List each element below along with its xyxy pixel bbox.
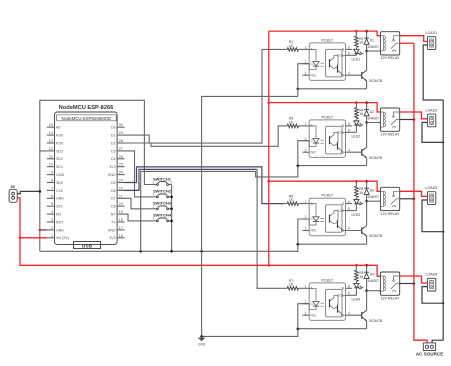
svg-text:PC817: PC817 — [321, 115, 333, 119]
wire D6 to channel-4 input (navy) — [124, 169, 257, 190]
ground bus left vertical — [39, 151, 41, 251]
AC hot red bus — [414, 43, 427, 343]
resistor R1 1K (series) — [284, 40, 303, 51]
wire LOAD3 neutral return — [422, 200, 443, 232]
node diode/coil/collector — [365, 200, 368, 203]
svg-text:3: 3 — [51, 218, 53, 222]
transistor Q3 BC547B — [346, 201, 383, 244]
ground trunk vertical to GND symbol — [201, 96, 203, 336]
node diode/coil/collector — [365, 121, 368, 124]
svg-text:NodeMCU ESP-8266: NodeMCU ESP-8266 — [59, 105, 114, 111]
svg-text:BC547B: BC547B — [369, 319, 382, 323]
wire 5V connector minus to ground bus — [17, 191, 40, 193]
svg-text:17: 17 — [119, 226, 123, 230]
svg-text:Vin (5V): Vin (5V) — [56, 236, 69, 240]
svg-text:N/C: N/C — [311, 313, 317, 317]
wire node to relay coil — [367, 122, 381, 124]
svg-text:3V3: 3V3 — [56, 205, 62, 209]
MCU right pins 30..16 — [117, 126, 125, 128]
relay K2 12V RELAY — [380, 108, 400, 137]
svg-text:BC547B: BC547B — [369, 234, 382, 238]
resistor R7 1K (series) — [284, 279, 303, 290]
svg-text:1: 1 — [305, 122, 307, 126]
svg-text:RST: RST — [56, 220, 64, 224]
wire relay K4 NO contact to LOAD4 (red) — [400, 276, 428, 283]
wire U2 pin5 to LED — [346, 131, 357, 133]
svg-text:1: 1 — [153, 180, 155, 184]
svg-text:22: 22 — [119, 186, 123, 190]
svg-text:18: 18 — [119, 218, 123, 222]
svg-text:N/C: N/C — [311, 73, 317, 77]
svg-text:LOAD2: LOAD2 — [426, 109, 438, 113]
wire 5V connector plus (red) down left side — [17, 198, 269, 265]
wire D1 (GPIO5) to channel-1 input — [124, 49, 284, 143]
switch SWITCH3 (pushbutton) — [149, 201, 173, 210]
svg-text:26: 26 — [119, 155, 123, 159]
wire U1 pin5 to LED — [346, 54, 357, 56]
emitter ground rail ch2 — [298, 165, 367, 167]
svg-text:25: 25 — [119, 163, 123, 167]
svg-text:LOAD3: LOAD3 — [426, 186, 438, 190]
svg-text:28: 28 — [119, 139, 123, 143]
LED4 indicator — [352, 283, 364, 301]
svg-text:D1: D1 — [370, 38, 374, 42]
svg-text:6: 6 — [51, 194, 53, 198]
load LOAD1 connector — [426, 31, 438, 49]
internal LED of U2 — [309, 126, 316, 139]
svg-text:D0: D0 — [111, 126, 116, 130]
svg-text:5V: 5V — [11, 184, 16, 189]
wire Vin(5V) pin1 red — [20, 237, 47, 239]
LED2 indicator — [352, 121, 364, 139]
svg-text:1N4007: 1N4007 — [367, 279, 379, 283]
wire U3 pin2 to ground rail — [298, 219, 309, 244]
svg-text:1N4007: 1N4007 — [367, 116, 379, 120]
wire relay K1 NO contact to LOAD1 (red) — [400, 36, 428, 42]
internal LED of U3 — [309, 204, 316, 217]
wire node to relay coil — [367, 200, 381, 202]
svg-text:CMD: CMD — [56, 173, 65, 177]
svg-text:1: 1 — [153, 193, 155, 197]
switch ground bus — [171, 185, 173, 252]
svg-text:1: 1 — [305, 46, 307, 50]
svg-text:NodeMCU-ESP8266MOD: NodeMCU-ESP8266MOD — [61, 116, 111, 121]
svg-text:SWITCH2: SWITCH2 — [153, 189, 172, 194]
svg-text:LOAD1: LOAD1 — [426, 31, 438, 35]
svg-text:9: 9 — [51, 171, 53, 175]
svg-text:30: 30 — [119, 123, 123, 127]
transistor Q2 BC547B — [346, 123, 383, 166]
wire U2 pin2 to ground rail — [298, 141, 309, 166]
channel1 ground return — [202, 95, 298, 97]
diode D2 1N4007 flyback — [364, 103, 379, 123]
wire U4 pin2 to ground rail — [298, 304, 309, 329]
svg-text:N/C: N/C — [311, 229, 317, 233]
internal phototransistor of U2 — [329, 136, 331, 144]
svg-text:6: 6 — [348, 46, 350, 50]
svg-text:3: 3 — [305, 148, 307, 152]
resistor R6 1K (LED feed) — [355, 181, 365, 199]
svg-text:RSV: RSV — [56, 141, 64, 145]
op-amp/optocoupler U2 PC817 box — [269, 43, 445, 357]
wire MCU GND pin2 to ground bus — [40, 229, 47, 231]
relay K3 12V RELAY — [380, 187, 400, 216]
ground symbol GND — [198, 338, 206, 342]
svg-text:10: 10 — [49, 163, 53, 167]
svg-text:4: 4 — [51, 210, 53, 214]
svg-text:USB: USB — [82, 243, 93, 249]
svg-text:12V RELAY: 12V RELAY — [381, 56, 401, 60]
wire LOAD1 neutral return — [423, 45, 443, 100]
diode D4 1N4007 flyback — [364, 265, 379, 291]
svg-text:11: 11 — [49, 155, 53, 159]
svg-text:15: 15 — [49, 123, 53, 127]
svg-text:3V3: 3V3 — [109, 236, 115, 240]
channel4 ground return along bottom — [202, 329, 298, 337]
relay K4 12V RELAY — [380, 272, 400, 301]
svg-text:AC SOURCE: AC SOURCE — [416, 352, 444, 357]
svg-text:SD3: SD3 — [56, 149, 63, 153]
svg-text:3V3: 3V3 — [109, 165, 115, 169]
svg-text:D3: D3 — [111, 149, 116, 153]
resistor R8 1K (LED feed) — [355, 265, 365, 283]
svg-text:23: 23 — [119, 179, 123, 183]
wire RX to SWITCH4 — [124, 214, 149, 221]
svg-text:12V RELAY: 12V RELAY — [381, 212, 401, 216]
svg-text:6: 6 — [348, 200, 350, 204]
op-amp/optocoupler U1 PC817 box — [269, 30, 445, 357]
svg-text:27: 27 — [119, 147, 123, 151]
wire U3 pin5 to LED — [346, 210, 357, 212]
svg-text:8: 8 — [51, 179, 53, 183]
svg-text:RX: RX — [111, 213, 117, 217]
svg-text:1K: 1K — [289, 198, 294, 202]
AC neutral black bus — [432, 100, 443, 343]
svg-text:16: 16 — [119, 234, 123, 238]
svg-text:PC817: PC817 — [321, 194, 333, 198]
op-amp/optocoupler U3 PC817 box — [269, 43, 445, 357]
svg-text:6: 6 — [348, 285, 350, 289]
resistor R5 1K (series) — [284, 194, 303, 205]
svg-text:1: 1 — [153, 217, 155, 221]
wire D2 (GPIO4) to channel-2 input — [124, 126, 284, 146]
svg-text:1N4007: 1N4007 — [367, 45, 379, 49]
svg-text:2: 2 — [51, 226, 53, 230]
resistor R4 1K (LED feed) — [355, 103, 365, 121]
emitter ground rail ch4 — [298, 328, 367, 330]
wire relay K3 NO contact to LOAD3 (red) — [400, 191, 428, 196]
wire node to relay coil — [367, 290, 381, 292]
svg-text:BC547B: BC547B — [369, 156, 382, 160]
svg-text:2: 2 — [171, 180, 173, 184]
svg-text:A0: A0 — [56, 126, 60, 130]
svg-text:D4: D4 — [111, 157, 116, 161]
svg-text:EN: EN — [56, 213, 61, 217]
svg-text:LED4: LED4 — [352, 298, 361, 302]
svg-text:D3: D3 — [370, 189, 374, 193]
svg-text:20: 20 — [119, 202, 123, 206]
svg-text:D8: D8 — [111, 205, 116, 209]
internal LED of U4 — [309, 288, 316, 301]
svg-text:SWITCH4: SWITCH4 — [153, 213, 172, 218]
svg-text:3: 3 — [305, 311, 307, 315]
channel2 ground link to bus — [141, 166, 298, 252]
load LOAD3 connector — [426, 186, 438, 204]
svg-text:GND: GND — [108, 228, 116, 232]
svg-text:GND: GND — [198, 343, 206, 347]
LED1 indicator — [352, 49, 364, 61]
svg-text:LED1: LED1 — [352, 58, 361, 62]
svg-text:GND: GND — [56, 197, 64, 201]
svg-text:PC817: PC817 — [321, 38, 333, 42]
svg-text:D6: D6 — [111, 189, 116, 193]
internal phototransistor of U3 — [329, 215, 331, 223]
wire D5 to channel-3 input (navy) — [124, 167, 284, 204]
resistor R3 1K (series) — [284, 117, 303, 128]
internal phototransistor of U4 — [329, 299, 331, 307]
svg-text:3: 3 — [305, 227, 307, 231]
switch SWITCH1 (pushbutton) — [149, 176, 173, 185]
svg-text:D7: D7 — [111, 197, 116, 201]
svg-text:D1: D1 — [111, 134, 116, 138]
svg-text:LOAD4: LOAD4 — [426, 273, 438, 277]
transistor Q4 BC547B — [346, 291, 383, 329]
red 5V rail ch1 — [269, 31, 381, 36]
svg-text:19: 19 — [119, 210, 123, 214]
MCU left pins 15..1 — [47, 126, 55, 128]
svg-text:TX: TX — [111, 220, 116, 224]
svg-text:1K: 1K — [289, 44, 294, 48]
svg-text:13: 13 — [49, 139, 53, 143]
MCU U-NodeMCU outer box — [55, 112, 118, 244]
svg-text:1: 1 — [153, 205, 155, 209]
svg-text:GND: GND — [56, 228, 64, 232]
svg-text:21: 21 — [119, 194, 123, 198]
wire D7 to SWITCH3 — [124, 198, 149, 209]
svg-text:24: 24 — [119, 171, 123, 175]
svg-text:N/C: N/C — [311, 150, 317, 154]
svg-text:CLK: CLK — [56, 189, 64, 193]
svg-text:1: 1 — [51, 234, 53, 238]
svg-text:D5: D5 — [111, 181, 116, 185]
diode D3 1N4007 flyback — [364, 181, 379, 201]
svg-text:D2: D2 — [111, 141, 116, 145]
AC SOURCE connector — [416, 343, 444, 357]
svg-text:1K: 1K — [289, 120, 294, 124]
wire SD3 routed over MCU to SWITCH1 — [40, 100, 149, 184]
switch SWITCH2 (pushbutton) — [149, 189, 173, 198]
wire relay K1 COM to AC hot bus — [400, 42, 414, 44]
switch SWITCH4 (pushbutton) — [149, 213, 173, 222]
svg-text:LED3: LED3 — [352, 213, 361, 217]
svg-text:SD1: SD1 — [56, 165, 63, 169]
svg-text:6: 6 — [348, 122, 350, 126]
svg-text:1: 1 — [305, 200, 307, 204]
svg-text:14: 14 — [49, 131, 53, 135]
wire relay K4 COM to AC hot bus — [400, 283, 414, 285]
svg-text:SD2: SD2 — [56, 157, 63, 161]
svg-text:GND: GND — [108, 173, 116, 177]
load LOAD4 connector — [426, 273, 438, 291]
svg-text:LED2: LED2 — [352, 135, 361, 139]
MCU USB connector — [74, 242, 101, 249]
red 5V rail ch4 — [269, 265, 381, 276]
op-amp/optocoupler U4 PC817 box — [269, 43, 445, 357]
svg-text:12V RELAY: 12V RELAY — [381, 133, 401, 137]
svg-text:5: 5 — [51, 202, 53, 206]
wire node to relay coil — [367, 50, 381, 52]
red 5V riser bus — [268, 31, 270, 265]
internal phototransistor of U1 — [329, 59, 331, 67]
svg-text:SD0: SD0 — [56, 181, 63, 185]
resistor R2 1K (LED feed) — [355, 31, 365, 49]
red 5V rail ch2 — [269, 103, 381, 112]
wire LOAD4 neutral return — [422, 287, 443, 304]
wire relay K2 COM to AC hot bus — [400, 119, 414, 121]
junction Vin red — [19, 237, 22, 240]
ground bus horizontal — [40, 244, 298, 251]
svg-text:1N4007: 1N4007 — [367, 195, 379, 199]
svg-text:D2: D2 — [370, 110, 374, 114]
MCU inner title box — [56, 115, 116, 121]
wire relay K2 NO contact to LOAD2 (red) — [400, 112, 428, 119]
transistor Q1 BC547B — [346, 51, 383, 89]
wire U1 pin2 to ground rail — [298, 64, 309, 89]
5V supply connector J1 — [9, 189, 17, 202]
svg-text:BC547B: BC547B — [369, 79, 382, 83]
svg-text:SWITCH1: SWITCH1 — [153, 176, 172, 181]
svg-text:29: 29 — [119, 131, 123, 135]
emitter ground rail ch1 — [298, 88, 367, 90]
svg-text:12V RELAY: 12V RELAY — [381, 297, 401, 301]
node diode/coil/collector — [365, 50, 368, 53]
svg-text:3: 3 — [305, 71, 307, 75]
diode D1 1N4007 flyback — [364, 31, 379, 51]
svg-text:1: 1 — [305, 285, 307, 289]
node diode/coil/collector — [365, 289, 368, 292]
svg-text:D4: D4 — [370, 273, 374, 277]
wire relay K3 COM to AC hot bus — [400, 198, 414, 200]
svg-text:RSV: RSV — [56, 134, 64, 138]
LED3 indicator — [352, 199, 364, 217]
wire U4 pin5 to LED — [346, 294, 357, 296]
wire D3 to SWITCH2 — [124, 151, 149, 197]
svg-text:7: 7 — [51, 186, 53, 190]
internal LED of U1 — [309, 49, 316, 61]
red 5V rail ch3 — [269, 181, 381, 191]
svg-text:12: 12 — [49, 147, 53, 151]
svg-text:SWITCH3: SWITCH3 — [153, 201, 172, 206]
emitter ground rail ch3 — [298, 243, 367, 245]
relay K1 12V RELAY — [380, 32, 400, 61]
svg-text:PC817: PC817 — [321, 278, 333, 282]
wire LOAD2 neutral return — [422, 122, 443, 142]
svg-text:1K: 1K — [289, 283, 294, 287]
load LOAD2 connector — [426, 109, 438, 127]
